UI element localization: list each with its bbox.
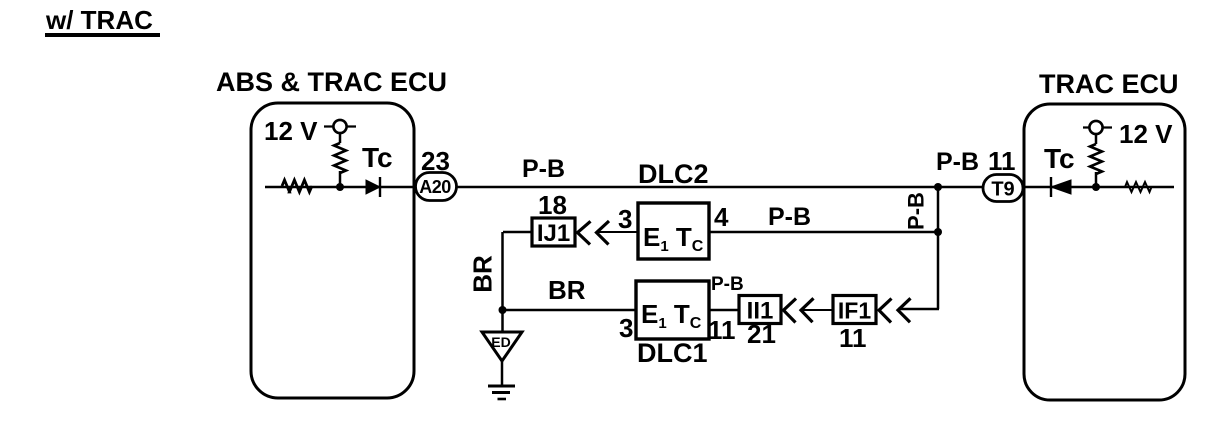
svg-text:P-B: P-B — [904, 192, 929, 230]
svg-text:4: 4 — [714, 202, 729, 232]
svg-text:A20: A20 — [419, 177, 451, 197]
svg-text:3: 3 — [618, 204, 632, 234]
wire main DLC2 line — [265, 186, 1174, 189]
svg-text:DLC1: DLC1 — [637, 338, 708, 368]
wire DLC1 to II1 — [709, 309, 739, 312]
wire pin4 to vertical — [709, 231, 938, 234]
svg-text:Tc: Tc — [1044, 143, 1075, 174]
svg-text:11: 11 — [988, 146, 1016, 176]
resistor pull-up left — [334, 143, 346, 173]
check connector DLC2 box E1 Tc — [638, 203, 709, 259]
resistor series left — [282, 180, 312, 192]
wire chevron to IF1 — [802, 309, 834, 311]
power source B+ right — [1083, 121, 1112, 134]
svg-text:ED: ED — [491, 334, 510, 350]
wire resistor to node left — [339, 171, 342, 187]
svg-text:w/ TRAC: w/ TRAC — [45, 5, 153, 35]
svg-text:P-B: P-B — [936, 148, 979, 176]
diode Tc right — [1051, 177, 1071, 197]
svg-text:BR: BR — [548, 275, 586, 305]
connector T9 — [983, 175, 1023, 202]
svg-text:Tc: Tc — [362, 142, 393, 173]
svg-text:21: 21 — [747, 319, 776, 349]
ground ED triangle — [482, 332, 522, 361]
wire stub left of IJ1 — [503, 231, 532, 234]
svg-text:BR: BR — [468, 255, 498, 293]
node junction left — [336, 183, 344, 191]
power source B+ left — [324, 120, 356, 133]
svg-text:P-B: P-B — [768, 203, 811, 231]
wire resistor to node right — [1095, 172, 1098, 187]
svg-text:T9: T9 — [991, 179, 1014, 201]
svg-text:TRAC ECU: TRAC ECU — [1039, 69, 1179, 99]
svg-text:11: 11 — [708, 315, 736, 345]
wire vertical IJ1 branch — [501, 232, 504, 332]
svg-text:11: 11 — [839, 323, 867, 353]
diode Tc left — [366, 177, 380, 197]
connector chevron pair at II1 — [784, 298, 814, 322]
connector chevron pair at IF1 — [879, 298, 911, 322]
ECU box ABS & TRAC ECU — [251, 103, 414, 398]
svg-text:12 V: 12 V — [264, 116, 318, 146]
node junction right — [1092, 183, 1100, 191]
wire vertical P-B — [937, 187, 940, 309]
wire chevron to vertical corner — [898, 308, 939, 311]
svg-text:3: 3 — [619, 313, 633, 343]
ECU box TRAC ECU — [1024, 104, 1185, 400]
node junction BR/ground — [499, 306, 507, 314]
title w/ TRAC — [45, 5, 160, 35]
check connector DLC1 box E1 Tc — [636, 281, 709, 339]
wire from power to resistor left — [339, 132, 342, 143]
svg-text:18: 18 — [538, 190, 567, 220]
node junction pin4/vertical — [934, 228, 942, 236]
svg-text:P-B: P-B — [711, 274, 744, 295]
resistor pull-up right — [1090, 144, 1102, 174]
junction connector IJ1 — [532, 218, 575, 247]
ground hash marks — [488, 386, 515, 399]
svg-text:IJ1: IJ1 — [537, 220, 570, 247]
wire ground stem — [501, 361, 504, 386]
resistor series right — [1125, 182, 1152, 192]
wire BR to DLC1 pin3 — [503, 309, 637, 312]
svg-text:ABS & TRAC ECU: ABS & TRAC ECU — [216, 67, 447, 97]
node junction main/vertical — [934, 183, 942, 191]
svg-text:12 V: 12 V — [1119, 119, 1173, 149]
junction connector II1 — [739, 296, 781, 325]
svg-text:P-B: P-B — [522, 155, 565, 183]
connector A20 — [416, 173, 457, 201]
wire power to resistor right — [1095, 133, 1098, 144]
wire chevron to DLC2 pin3 — [596, 231, 638, 233]
connector chevron pair at IJ1 — [578, 221, 610, 245]
svg-text:IF1: IF1 — [838, 298, 871, 324]
svg-text:DLC2: DLC2 — [638, 159, 709, 189]
junction connector IF1 — [833, 296, 876, 324]
